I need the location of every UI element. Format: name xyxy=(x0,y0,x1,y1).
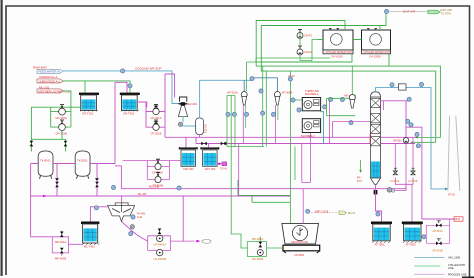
right valve B xyxy=(436,242,442,246)
green tank feed header wire xyxy=(31,107,65,151)
magenta crystallizer feed header wire xyxy=(165,136,418,138)
valve T1 outlet xyxy=(55,182,59,188)
thickener feed wire xyxy=(121,196,123,203)
green chiller supply wire 2 xyxy=(261,12,386,71)
svg-text:CH-P2: CH-P2 xyxy=(304,50,312,54)
node on header B xyxy=(111,185,115,189)
ejector nozzle block xyxy=(181,102,186,105)
gray dot on underflow xyxy=(130,225,134,229)
svg-text:WF-P01A: WF-P01A xyxy=(252,237,264,241)
chiller unit CH-1 xyxy=(323,30,353,50)
cake out flag xyxy=(339,211,347,215)
crystallizer V4 xyxy=(203,150,218,166)
ejector cone xyxy=(178,106,187,117)
svg-text:TK-8201: TK-8201 xyxy=(77,158,88,162)
reactor R-101 flange xyxy=(79,93,99,95)
blower package 1 xyxy=(302,98,320,111)
svg-text:CP-201A: CP-201A xyxy=(151,116,162,120)
KO drum drain wire xyxy=(199,135,201,138)
magenta right riser wire xyxy=(381,101,456,219)
junction dot xyxy=(224,142,226,144)
legend line 1 xyxy=(414,256,445,258)
green drop wires center xyxy=(247,62,259,91)
magenta long vertical from R-201 wire xyxy=(114,82,116,163)
svg-text:TO ATM: TO ATM xyxy=(441,12,452,16)
node exit air xyxy=(384,9,388,13)
packing section 1 xyxy=(371,98,381,107)
crystallizer V3 lid xyxy=(179,147,197,149)
node column drain xyxy=(376,212,380,216)
svg-text:MP-401B: MP-401B xyxy=(55,256,66,260)
scrubber column C-501 xyxy=(371,92,381,97)
wire between chillers xyxy=(318,39,362,41)
green blower feed wire xyxy=(290,71,302,223)
svg-text:TO-41: TO-41 xyxy=(220,168,228,171)
vessel V6 xyxy=(373,224,390,241)
wire T1 outlet xyxy=(56,164,58,197)
svg-text:CP-101A: CP-101A xyxy=(56,116,67,120)
reactor R-101 xyxy=(81,95,97,110)
pump P-101A xyxy=(59,108,66,115)
green lower header wire xyxy=(227,146,264,148)
ejector motor bracket E1 xyxy=(180,97,187,102)
blower suction pump xyxy=(349,95,355,109)
svg-text:AT-T601: AT-T601 xyxy=(375,243,386,247)
magenta header A wire xyxy=(121,188,406,190)
chiller pump T valve 2 xyxy=(298,46,302,49)
vacuum pump VP-2 xyxy=(274,92,280,106)
svg-text:CHEM FEED A-1: CHEM FEED A-1 xyxy=(39,79,61,83)
green feed to pump3 wire xyxy=(351,66,353,94)
crystallizer V3 xyxy=(181,150,196,166)
svg-text:UF-P401B: UF-P401B xyxy=(154,257,167,261)
wire V4 feed drop xyxy=(208,144,210,149)
svg-text:CP-201B: CP-201B xyxy=(151,132,162,136)
magenta left downcomer wire xyxy=(31,164,53,237)
wire R-201 right side xyxy=(137,102,147,108)
pump P-101A valve xyxy=(60,105,64,109)
blower piping wires xyxy=(327,95,356,116)
green drain arrow xyxy=(360,160,362,170)
right flag xyxy=(454,217,463,221)
green return header 3 wire xyxy=(261,54,435,142)
svg-text:LINE: LINE xyxy=(448,267,454,270)
pump P-301A xyxy=(155,163,161,169)
wire node to KO drum xyxy=(183,125,196,127)
valve on header 2 xyxy=(221,142,227,146)
crystallizer V4 lid xyxy=(201,147,219,149)
gray circles pair xyxy=(387,187,392,192)
node 1 xyxy=(121,69,125,73)
svg-text:PI-5: PI-5 xyxy=(357,179,362,183)
right valve A xyxy=(436,224,442,228)
node on overflow xyxy=(94,206,98,210)
green bottom header wires xyxy=(238,180,290,202)
cyan cooling header wire xyxy=(63,71,180,104)
pump P-301A valve xyxy=(156,159,160,163)
magenta center verticals wires xyxy=(239,122,311,196)
centrifuge body xyxy=(282,223,319,244)
legend line 2 xyxy=(414,265,440,267)
green tie-ins to pump wires xyxy=(413,138,440,143)
green center verticals wires xyxy=(230,96,232,233)
pump P-201B xyxy=(153,124,159,130)
svg-text:CHILLED WATER UNIT: CHILLED WATER UNIT xyxy=(364,51,391,54)
svg-text:CHILLED WATER UNIT: CHILLED WATER UNIT xyxy=(326,51,353,54)
vacuum pump VP-1 xyxy=(241,92,247,106)
svg-text:VP-301B: VP-301B xyxy=(282,90,293,94)
node right of V7 xyxy=(422,235,426,239)
vessel V7 flange xyxy=(402,222,423,225)
svg-text:UF-P401A: UF-P401A xyxy=(154,243,167,247)
green return header 2 wire xyxy=(256,66,440,137)
packing section 2 xyxy=(371,114,381,123)
svg-text:EJ-301: EJ-301 xyxy=(188,102,197,106)
sample box xyxy=(222,162,227,166)
feed flag 3 xyxy=(37,89,63,93)
exit air flag xyxy=(428,10,440,14)
thickener underflow wire xyxy=(122,222,148,242)
exit air wire xyxy=(389,11,428,13)
svg-text:CF-P601: CF-P601 xyxy=(294,253,305,257)
svg-text:ML-T401: ML-T401 xyxy=(84,245,95,249)
magenta feed to centrifuge wire xyxy=(302,189,304,224)
pump P-301B xyxy=(155,176,161,182)
chiller pump 2 xyxy=(297,49,303,55)
pump P-301B valve xyxy=(156,172,160,176)
feed flag 1 xyxy=(37,69,63,73)
svg-text:CH-Y2000: CH-Y2000 xyxy=(369,56,381,59)
svg-text:CH-P1: CH-P1 xyxy=(304,34,312,38)
valve tank T1 inlet xyxy=(30,141,34,147)
green step wires bottom center xyxy=(231,232,247,248)
thickener overflow wire xyxy=(90,207,107,222)
vessel V5 flange xyxy=(81,222,99,225)
control valve B xyxy=(411,171,415,175)
wire V3 feed drop xyxy=(186,137,196,148)
pump P-201A xyxy=(153,108,159,114)
column cone xyxy=(371,178,381,184)
svg-text:AP-601A: AP-601A xyxy=(433,230,443,233)
right pump xyxy=(403,138,409,144)
svg-text:SP-501: SP-501 xyxy=(393,139,402,143)
svg-text:SC-501: SC-501 xyxy=(368,134,372,143)
pump VP-2 tails wires xyxy=(277,105,279,120)
chiller pump 1 xyxy=(297,33,303,39)
wire chiller 2 drop xyxy=(379,26,381,31)
node on underflow xyxy=(129,232,133,236)
column bottom wire xyxy=(376,184,382,221)
vertical drop to discharge wire xyxy=(182,196,184,241)
demister box xyxy=(399,84,407,90)
mid pump loop 2 wires xyxy=(123,161,182,180)
bottom-left pump loop wires xyxy=(52,231,82,257)
cyan vacuum header wire xyxy=(252,78,277,92)
right bowtie loop wires xyxy=(425,219,450,243)
reactor R-201 xyxy=(122,95,138,110)
pump P-201B valve xyxy=(154,120,158,124)
thickener TH-401 xyxy=(108,203,135,222)
tank TK-201 xyxy=(75,151,90,176)
nodes on overhead xyxy=(390,83,394,87)
valve T2 outlet xyxy=(95,182,99,188)
center-bottom pump loop wires xyxy=(148,229,195,251)
svg-text:MLR: MLR xyxy=(455,217,461,221)
svg-text:PROCESS LINE: PROCESS LINE xyxy=(448,273,467,276)
svg-text:COOLING WP SUP: COOLING WP SUP xyxy=(135,67,161,71)
pump P-101B xyxy=(59,124,66,131)
node near slope xyxy=(131,215,135,219)
nodes on drops xyxy=(226,112,230,116)
feed flag 2 xyxy=(37,79,63,83)
control valve A xyxy=(393,171,397,175)
svg-text:S-41: S-41 xyxy=(137,215,143,219)
svg-text:AB-1: AB-1 xyxy=(344,93,350,97)
svg-text:ST-01: ST-01 xyxy=(448,192,455,196)
chiller pump riser wire xyxy=(300,33,318,61)
svg-text:CH-Y1000: CH-Y1000 xyxy=(331,56,343,59)
magenta tank header wire xyxy=(31,163,115,165)
packing section 4 xyxy=(371,137,381,146)
svg-text:VP-301A: VP-301A xyxy=(227,90,238,94)
right pump discharge wire xyxy=(405,143,407,190)
legend line 3 xyxy=(414,273,445,275)
node on header A xyxy=(177,186,181,190)
vessel V7 xyxy=(404,224,421,241)
svg-text:CRY-302: CRY-302 xyxy=(205,167,216,171)
nodes right riser xyxy=(407,97,411,101)
pump P-401A xyxy=(157,235,163,241)
valve tank T2 inlet xyxy=(64,141,68,147)
green feed header wire xyxy=(63,81,130,93)
wire branch to R-101 xyxy=(84,81,86,93)
tank TK-101 xyxy=(38,151,53,176)
svg-text:AP-601B: AP-601B xyxy=(433,249,443,252)
svg-text:BLOWER-1: BLOWER-1 xyxy=(305,92,319,96)
svg-text:FEED WATER IN: FEED WATER IN xyxy=(39,70,61,74)
wire T2 outlet xyxy=(96,164,98,197)
magenta secondary vertical wire xyxy=(383,101,385,110)
stack xyxy=(448,116,460,191)
chiller pump T valve xyxy=(298,30,302,33)
pump P-201A valve xyxy=(154,104,158,108)
column bottom fitting xyxy=(374,190,378,194)
svg-text:CRY-301: CRY-301 xyxy=(183,167,194,171)
node 2 xyxy=(128,84,132,88)
svg-text:TH-401: TH-401 xyxy=(137,212,146,216)
pump P-401B xyxy=(157,249,163,255)
svg-text:LV-601A: LV-601A xyxy=(390,180,400,183)
svg-text:BG-01: BG-01 xyxy=(348,212,356,215)
svg-text:CP-101B: CP-101B xyxy=(56,131,67,135)
green loop bottom wires xyxy=(247,237,282,257)
chiller unit CH-2 xyxy=(362,30,391,50)
green recycle wire xyxy=(31,91,80,127)
R-201 pump loop wires xyxy=(137,74,174,137)
reactor R-201 flange xyxy=(120,93,140,95)
magenta transfer header B wire xyxy=(31,195,290,197)
svg-text:ML-401: ML-401 xyxy=(138,193,147,196)
column sump liquid xyxy=(371,162,380,178)
valve loop A xyxy=(60,232,64,238)
svg-text:VAC LINE: VAC LINE xyxy=(448,256,460,260)
KO drum V-301 xyxy=(196,118,204,135)
svg-text:LV-601B: LV-601B xyxy=(408,180,418,183)
vessel V6 flange xyxy=(371,222,392,225)
magenta valve header wire xyxy=(196,143,415,145)
blower nodes xyxy=(291,98,295,102)
green chiller supply wire xyxy=(256,21,345,67)
valve assembly A riser wire xyxy=(395,137,413,221)
svg-text:ML-LINE: ML-LINE xyxy=(149,185,160,189)
svg-text:KO-301: KO-301 xyxy=(204,124,208,133)
vacuum riser wire xyxy=(200,80,252,118)
green return header wire xyxy=(258,54,352,62)
pump VP-1 tails wires xyxy=(245,105,247,128)
svg-text:TK-8101: TK-8101 xyxy=(40,158,51,162)
blower package 2 xyxy=(302,119,320,133)
svg-text:MP-401A: MP-401A xyxy=(55,240,66,244)
frame bottom right tick xyxy=(462,276,474,278)
svg-text:BLOWER-2: BLOWER-2 xyxy=(301,134,315,138)
gray node under ejector xyxy=(178,122,182,126)
cyan drop to pump V1 wire xyxy=(243,80,245,91)
svg-text:CR-T101: CR-T101 xyxy=(82,111,94,115)
green loop pump xyxy=(257,250,263,256)
wire R-201 top loop xyxy=(115,82,127,92)
header A left riser wire xyxy=(115,166,121,189)
valve above loop xyxy=(158,229,162,235)
green drop wires from headers xyxy=(227,66,266,146)
green return header 0 wire xyxy=(256,58,330,62)
frame outer left edge xyxy=(1,0,3,276)
node above centrifuge xyxy=(306,209,310,213)
svg-text:AT-T602: AT-T602 xyxy=(406,243,417,247)
cyan column overhead wire xyxy=(376,88,447,189)
discharge arrow xyxy=(196,240,200,243)
outlet oval flag xyxy=(202,240,211,244)
svg-text:CENTRIFUGE: CENTRIFUGE xyxy=(291,240,308,244)
vessel V5 xyxy=(83,224,98,243)
svg-text:WF-P01B: WF-P01B xyxy=(252,257,264,261)
node vac xyxy=(250,77,254,81)
magenta product arrow wire xyxy=(217,163,219,165)
svg-text:CR-T201: CR-T201 xyxy=(123,111,135,115)
centrifuge base xyxy=(283,245,320,251)
valve loop B xyxy=(60,248,64,254)
packing section 3 xyxy=(371,124,381,133)
wire ejector to node xyxy=(182,117,184,123)
pump P-101B valve xyxy=(60,120,64,124)
green loop valve xyxy=(259,242,263,248)
valve on header xyxy=(201,142,207,146)
